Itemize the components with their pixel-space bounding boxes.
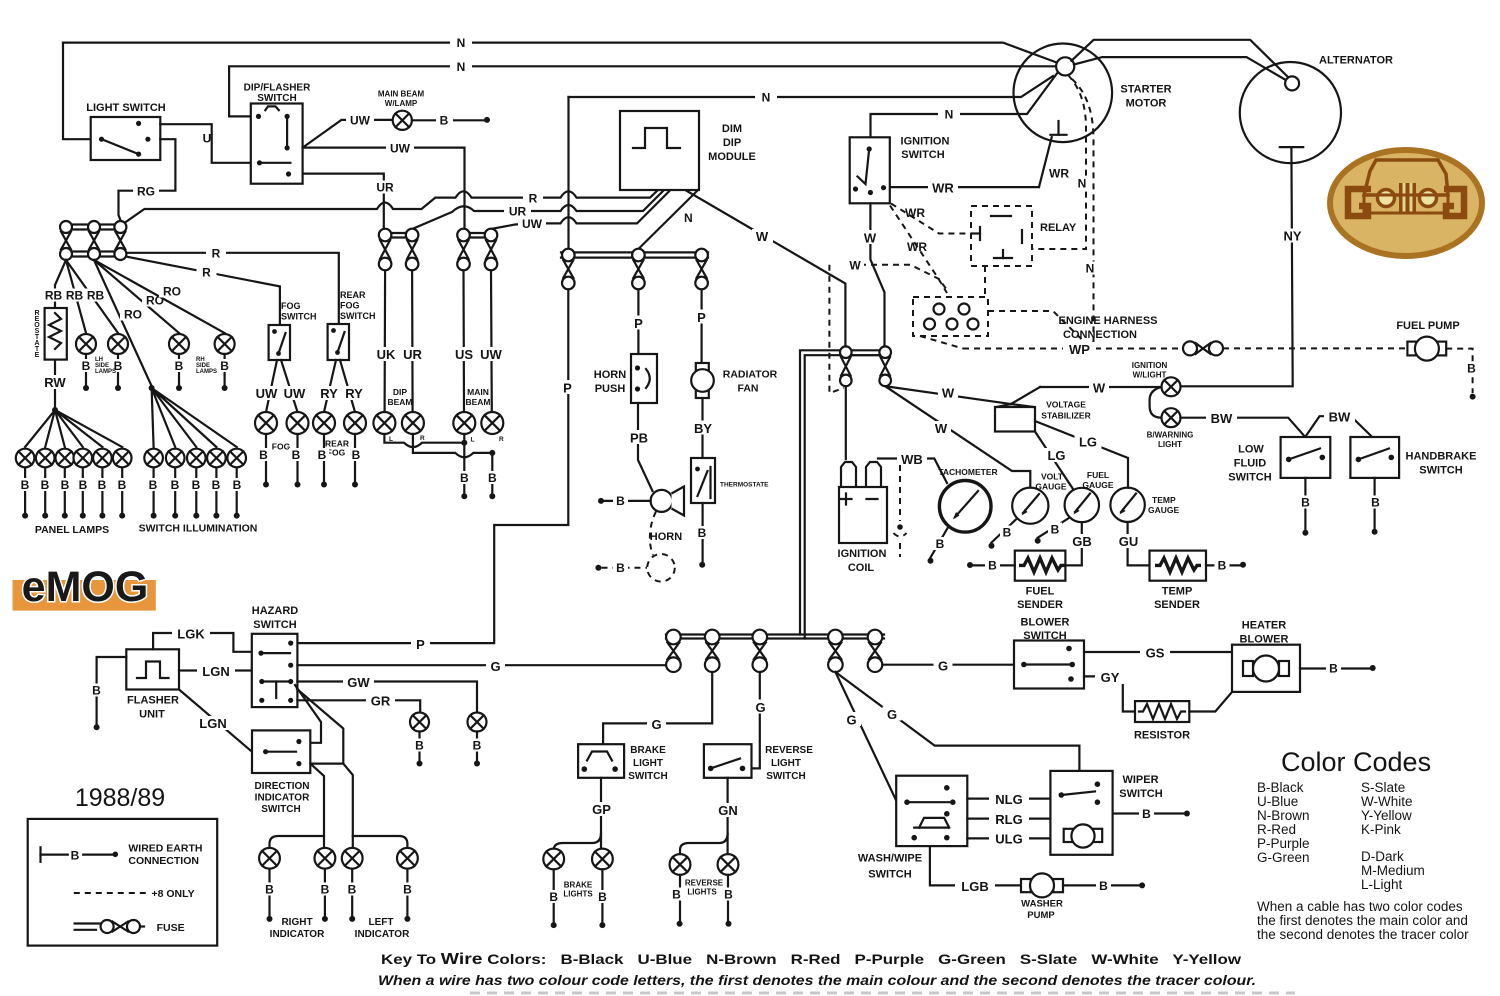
svg-text:LIGHTS: LIGHTS xyxy=(687,888,717,897)
svg-text:NY: NY xyxy=(1283,229,1301,244)
svg-text:the second denotes the tracer: the second denotes the tracer color xyxy=(1257,927,1469,942)
wire indicator earths xyxy=(270,869,408,916)
lamp main beam R xyxy=(481,412,503,434)
svg-text:UW: UW xyxy=(284,386,306,401)
svg-text:W: W xyxy=(1093,381,1106,396)
wire RB to LH side lamp 1 xyxy=(66,260,86,333)
svg-text:HORN: HORN xyxy=(650,531,682,543)
wire dashed WP line xyxy=(963,348,1183,350)
wire B earth of heater blower xyxy=(1300,667,1369,669)
resistor RESISTOR xyxy=(1135,701,1189,722)
bus tach fuse feed double line xyxy=(800,350,885,638)
svg-text:RY: RY xyxy=(345,386,363,401)
wire right pair branch xyxy=(270,836,325,848)
svg-text:B: B xyxy=(672,888,681,902)
wire GP to brake lights xyxy=(600,778,602,849)
wire dashed relay to harness xyxy=(984,266,986,297)
svg-text:UR: UR xyxy=(403,347,422,362)
wire dashed B earth xyxy=(602,567,648,569)
wire reverse light branch xyxy=(680,834,728,854)
svg-text:R: R xyxy=(499,436,504,443)
wire LG to fuel gauge xyxy=(1035,432,1073,490)
wire starter to alternator A xyxy=(1071,40,1290,79)
svg-text:DIRECTION: DIRECTION xyxy=(255,781,310,792)
wire brake light branch xyxy=(554,834,601,850)
wire left pair branch xyxy=(353,836,408,848)
svg-text:Color Codes: Color Codes xyxy=(1281,747,1431,777)
fusebox cluster double bus lines xyxy=(66,223,120,225)
svg-text:GR: GR xyxy=(371,694,391,709)
wire hazard to direction top pin xyxy=(295,685,321,743)
svg-text:W: W xyxy=(849,259,861,273)
svg-text:RESISTOR: RESISTOR xyxy=(1134,730,1190,742)
svg-text:REAR: REAR xyxy=(340,290,366,300)
svg-text:HANDBRAKE: HANDBRAKE xyxy=(1406,451,1477,463)
fuse gauge fuse 2 xyxy=(879,346,891,358)
svg-text:STABILIZER: STABILIZER xyxy=(1041,411,1090,421)
lamp right indicator front xyxy=(259,848,280,869)
svg-text:G: G xyxy=(846,713,856,728)
switch LOW FLUID SWITCH xyxy=(1281,437,1331,478)
svg-text:LG: LG xyxy=(1079,435,1097,450)
svg-text:L: L xyxy=(471,437,475,444)
fuse G fuse 1 xyxy=(666,630,681,645)
svg-text:G: G xyxy=(887,707,897,722)
wire reverse light earths xyxy=(680,875,728,920)
svg-text:W/LAMP: W/LAMP xyxy=(385,99,418,108)
wire dashed WP to fuel pump xyxy=(1223,347,1407,349)
svg-text:PUMP: PUMP xyxy=(1027,910,1055,921)
svg-text:LGN: LGN xyxy=(202,664,229,679)
svg-text:FLUID: FLUID xyxy=(1234,458,1266,470)
svg-text:1988/89: 1988/89 xyxy=(75,784,165,812)
svg-text:UW: UW xyxy=(256,386,278,401)
wire light switch feed drop xyxy=(63,43,91,140)
svg-text:eMOG: eMOG xyxy=(22,563,149,611)
svg-text:B: B xyxy=(71,848,80,862)
terminal alternator output xyxy=(1280,146,1303,148)
legend fuse symbol xyxy=(75,922,101,924)
svg-text:BW: BW xyxy=(1211,411,1233,426)
svg-text:THERMOSTATE: THERMOSTATE xyxy=(720,482,769,489)
svg-text:ULG: ULG xyxy=(995,832,1022,847)
svg-text:FOG: FOG xyxy=(327,448,346,458)
lamp repeater left xyxy=(468,713,487,732)
svg-text:LAMPS: LAMPS xyxy=(196,369,217,375)
wire N line 1 (top) xyxy=(63,43,1058,63)
bus G bus double line xyxy=(666,633,884,635)
svg-text:LAMPS: LAMPS xyxy=(95,369,116,375)
gauge FUEL GAUGE xyxy=(1065,488,1099,522)
wire B earth of washer pump xyxy=(1063,884,1139,886)
svg-text:N: N xyxy=(1086,262,1095,276)
wire PB to horn xyxy=(638,403,653,491)
svg-text:LIGHT: LIGHT xyxy=(633,758,663,769)
switch HANDBRAKE SWITCH xyxy=(1350,437,1399,478)
wire B earth of volt gauge xyxy=(992,519,1018,543)
svg-text:When a cable has two color cod: When a cable has two color codes xyxy=(1257,899,1463,914)
wire GS blower to heater xyxy=(1084,651,1232,653)
svg-text:W: W xyxy=(942,386,955,401)
svg-text:DIP/FLASHER: DIP/FLASHER xyxy=(244,83,311,94)
wire BW to low fluid switch xyxy=(1180,418,1305,437)
fuse F1 xyxy=(60,221,72,233)
svg-text:B: B xyxy=(321,883,330,897)
svg-text:N: N xyxy=(1078,177,1087,191)
wire WB coil to tachometer xyxy=(878,459,947,484)
svg-text:BRAKE: BRAKE xyxy=(630,745,666,756)
svg-text:B: B xyxy=(21,478,30,492)
svg-text:GAUGE: GAUGE xyxy=(1148,505,1180,515)
wire dashed coil points xyxy=(899,465,901,521)
svg-text:B: B xyxy=(1218,559,1227,573)
wire NY alternator to warning light xyxy=(1180,147,1292,386)
svg-text:UR: UR xyxy=(376,181,394,195)
svg-text:DIM: DIM xyxy=(722,123,742,135)
wire RO to switch illumination junction xyxy=(94,260,152,386)
wire UR drop to beam fuse 1 xyxy=(303,174,384,229)
svg-text:B: B xyxy=(988,559,997,573)
wire W stabilizer to ignition warning light xyxy=(1040,386,1161,388)
svg-text:SENDER: SENDER xyxy=(1017,599,1063,611)
wire UK drop xyxy=(384,270,387,412)
svg-text:B: B xyxy=(415,739,424,753)
wire B earth of handbrake xyxy=(1373,478,1375,528)
module DIM DIP MODULE xyxy=(620,111,699,190)
svg-text:FUEL: FUEL xyxy=(1026,586,1055,598)
wire B earth of tachometer xyxy=(931,527,949,558)
stabilizer VOLTAGE STABILIZER xyxy=(995,407,1035,432)
svg-text:RY: RY xyxy=(320,386,338,401)
svg-text:WR: WR xyxy=(907,240,927,254)
svg-text:B: B xyxy=(1003,526,1012,540)
svg-text:WR: WR xyxy=(1049,167,1069,181)
wire RO to RH side lamp 2 xyxy=(94,260,225,333)
wire N module to P-bus fuse 2 xyxy=(638,190,698,249)
svg-text:W: W xyxy=(756,229,769,244)
svg-text:R: R xyxy=(202,266,211,280)
wire RB to rheostat xyxy=(55,260,66,308)
wire LGB to washer pump xyxy=(930,846,1021,885)
node color code note xyxy=(1257,899,1469,942)
svg-text:U: U xyxy=(203,132,212,146)
wire W ignition down to tach fuse 2 xyxy=(870,203,884,346)
wire long P feed (N3 drop) xyxy=(567,97,569,249)
svg-text:MAIN BEAM: MAIN BEAM xyxy=(378,90,425,99)
svg-text:W: W xyxy=(864,231,877,246)
svg-text:B: B xyxy=(1371,496,1380,510)
svg-text:US: US xyxy=(455,347,473,362)
legend +8 only xyxy=(74,892,147,894)
wire B earth of horn xyxy=(604,500,651,502)
svg-text:UW: UW xyxy=(480,347,502,362)
svg-text:RO: RO xyxy=(124,308,142,322)
svg-text:LEFT: LEFT xyxy=(369,917,394,928)
horn HORN xyxy=(651,490,673,512)
svg-text:SWITCH: SWITCH xyxy=(766,771,805,782)
logo eMOG xyxy=(13,580,156,611)
svg-text:B: B xyxy=(352,448,361,462)
svg-text:SWITCH: SWITCH xyxy=(901,149,944,161)
svg-text:WP: WP xyxy=(1069,342,1090,357)
svg-text:COIL: COIL xyxy=(848,562,875,574)
lamp repeater right xyxy=(410,713,429,732)
svg-text:G: G xyxy=(755,700,765,715)
switch REVERSE LIGHT SWITCH xyxy=(704,744,752,778)
svg-text:B: B xyxy=(616,561,625,575)
svg-text:DIP: DIP xyxy=(393,387,408,397)
svg-text:BLOWER: BLOWER xyxy=(1021,617,1070,629)
wire resistor to heater blower xyxy=(1189,692,1232,712)
wire B earth of w/lamp xyxy=(412,119,487,121)
wire GY blower to resistor xyxy=(1084,676,1135,711)
wire UW drop xyxy=(490,270,493,412)
svg-text:R: R xyxy=(529,192,538,206)
svg-text:SENDER: SENDER xyxy=(1154,599,1200,611)
svg-text:WASHER: WASHER xyxy=(1021,899,1063,910)
svg-text:REVERSE: REVERSE xyxy=(765,745,813,756)
lamp reverse light L xyxy=(670,854,691,875)
svg-text:TEMP: TEMP xyxy=(1152,495,1176,505)
svg-text:TACHOMETER: TACHOMETER xyxy=(938,467,997,477)
svg-text:GS: GS xyxy=(1146,646,1165,661)
svg-text:IGNITION: IGNITION xyxy=(901,136,950,148)
connector ENGINE HARNESS CONNECTION xyxy=(913,297,988,336)
svg-text:SWITCH: SWITCH xyxy=(868,869,911,881)
svg-text:HORN: HORN xyxy=(594,369,626,381)
svg-text:P: P xyxy=(563,381,572,396)
wire G hazard to bus xyxy=(297,664,666,666)
wire starter to alternator B xyxy=(1074,57,1288,81)
svg-text:WASH/WIPE: WASH/WIPE xyxy=(858,853,922,865)
svg-text:E: E xyxy=(35,352,40,359)
wire B earth of temp sender xyxy=(1206,564,1240,566)
wire to right indicator pair xyxy=(310,764,324,848)
fuse G fuse 4 xyxy=(828,630,843,645)
svg-text:RB: RB xyxy=(45,289,63,303)
wire G to wash/wipe switch xyxy=(835,672,896,801)
wire rear fog earths xyxy=(324,434,355,481)
lamp panel lamps x6 xyxy=(16,449,132,468)
fuse G fuse 5 xyxy=(868,630,883,645)
lamp dip beam R xyxy=(402,412,424,434)
svg-text:B: B xyxy=(598,890,607,904)
svg-text:G: G xyxy=(490,659,500,674)
svg-text:B: B xyxy=(265,883,274,897)
wire RO to RH side lamp 1 xyxy=(94,260,179,333)
node RW junction xyxy=(52,407,58,413)
svg-text:INDICATOR: INDICATOR xyxy=(255,793,310,804)
svg-text:ALTERNATOR: ALTERNATOR xyxy=(1319,55,1393,67)
svg-text:BEAM: BEAM xyxy=(387,397,412,407)
node N label 4 xyxy=(938,108,960,121)
svg-text:RIGHT: RIGHT xyxy=(281,917,312,928)
wire P to radiator fan xyxy=(700,289,702,363)
wire RLG xyxy=(967,817,1050,819)
wire UW wavy from fuse4 to module xyxy=(491,190,670,229)
wire N line 2 xyxy=(229,66,1056,116)
svg-text:FUEL: FUEL xyxy=(1087,470,1109,480)
svg-text:PANEL LAMPS: PANEL LAMPS xyxy=(35,524,109,536)
svg-text:SWITCH: SWITCH xyxy=(1119,788,1162,800)
gauge TEMP GAUGE xyxy=(1110,488,1144,522)
wire UR wavy from fuse2 to module xyxy=(412,190,664,229)
svg-text:B-Black: B-Black xyxy=(1257,780,1304,795)
svg-text:RO: RO xyxy=(163,285,181,299)
svg-text:B: B xyxy=(1301,496,1310,510)
fuse F3 xyxy=(114,221,126,233)
svg-text:STARTER: STARTER xyxy=(1120,84,1171,96)
svg-text:N: N xyxy=(684,211,693,225)
svg-text:GN: GN xyxy=(718,803,738,818)
svg-text:RB: RB xyxy=(87,289,105,303)
svg-text:B: B xyxy=(61,478,70,492)
svg-text:LGN: LGN xyxy=(199,716,226,731)
svg-text:N: N xyxy=(762,91,771,105)
svg-text:UW: UW xyxy=(350,114,371,128)
wire dashed harness to WP xyxy=(920,336,963,349)
svg-text:MAIN: MAIN xyxy=(467,387,489,397)
lamp brake light R xyxy=(592,849,613,870)
wire L beams to earth xyxy=(384,434,464,447)
wire switch illumination earths xyxy=(154,468,237,512)
wire R beams to earth xyxy=(413,434,492,457)
wire N line 3 xyxy=(569,76,1054,97)
resistor FUEL SENDER xyxy=(1015,551,1066,581)
svg-text:CONNECTION: CONNECTION xyxy=(128,855,199,867)
battery IGNITION COIL xyxy=(841,462,856,487)
svg-text:FOG: FOG xyxy=(340,301,360,311)
svg-text:N: N xyxy=(457,60,466,74)
svg-text:B: B xyxy=(698,526,707,540)
wire dashed harness right link xyxy=(988,311,1091,349)
motor STARTER MOTOR xyxy=(1014,44,1113,143)
wire LGN flasher to direction indicator xyxy=(179,690,252,752)
wire dashed horn +8 xyxy=(650,512,656,556)
svg-text:B: B xyxy=(403,883,412,897)
wire RG xyxy=(119,139,176,220)
wire panel lamp fan xyxy=(25,410,122,447)
lamp main beam L xyxy=(453,412,475,434)
svg-text:S-Slate: S-Slate xyxy=(1361,780,1405,795)
svg-text:B: B xyxy=(149,478,158,492)
svg-text:BEAM: BEAM xyxy=(465,397,490,407)
fuse gauge fuse 1 xyxy=(840,346,852,358)
svg-text:N-Brown: N-Brown xyxy=(1257,808,1310,823)
wire W fuse2 to tachometer junction xyxy=(885,386,1030,487)
svg-text:B: B xyxy=(460,471,469,485)
lamp fog lamps xyxy=(255,412,277,434)
svg-text:GP: GP xyxy=(592,802,611,817)
lamp B/WARNING LIGHT xyxy=(1162,408,1181,427)
svg-text:FUEL PUMP: FUEL PUMP xyxy=(1396,320,1459,332)
svg-text:U-Blue: U-Blue xyxy=(1257,794,1298,809)
wire main R earth drop xyxy=(491,453,493,493)
wire UW horizontal to beam fuse 3 xyxy=(303,148,465,229)
svg-text:PB: PB xyxy=(630,431,648,446)
svg-text:+8 ONLY: +8 ONLY xyxy=(152,888,195,900)
switch BRAKE LIGHT SWITCH xyxy=(578,744,624,778)
svg-text:UNIT: UNIT xyxy=(139,709,165,721)
wire GB fuel gauge to sender xyxy=(1065,522,1081,565)
svg-text:SWITCH: SWITCH xyxy=(628,771,667,782)
svg-text:SWITCH: SWITCH xyxy=(1419,465,1462,477)
wire link to warning light xyxy=(1150,387,1162,418)
svg-text:B: B xyxy=(724,888,733,902)
fuse P fuse 2 xyxy=(632,249,645,262)
svg-text:HAZARD: HAZARD xyxy=(252,605,298,617)
fuse P fuse 3 xyxy=(695,249,708,262)
wire dashed N starter to WP line xyxy=(1072,79,1094,349)
wire GU temp gauge to sender xyxy=(1128,522,1150,565)
fuse beam fuse 1 xyxy=(385,232,412,234)
svg-text:B: B xyxy=(220,359,229,373)
wire GR to right-rear indicator lamp xyxy=(297,700,420,712)
svg-text:W: W xyxy=(935,421,948,436)
svg-text:RB: RB xyxy=(66,289,84,303)
fuse beam fuse 3 xyxy=(464,232,492,234)
svg-text:GB: GB xyxy=(1072,534,1092,549)
wire BY to thermostat xyxy=(701,398,703,458)
svg-text:LIGHTS: LIGHTS xyxy=(563,890,593,899)
svg-text:B: B xyxy=(212,478,221,492)
svg-text:B: B xyxy=(292,448,301,462)
wire B earth of low fluid xyxy=(1304,478,1306,529)
lamp left indicator front xyxy=(342,848,363,869)
wire rear fog feeds RY RY xyxy=(324,360,355,412)
node N label 3 xyxy=(755,91,777,104)
gauge VOLT GAUGE xyxy=(1012,488,1048,524)
node cut-off bottom text xyxy=(470,992,1295,995)
wire UW to main beam warning lamp xyxy=(303,120,393,148)
horn dashed horn (+8 only) xyxy=(647,554,675,582)
svg-text:SWITCH: SWITCH xyxy=(261,804,300,815)
wire dashed B earth of fuel pump xyxy=(1446,349,1472,393)
wire RW xyxy=(54,360,56,407)
svg-text:SWITCH: SWITCH xyxy=(340,311,376,321)
svg-text:RW: RW xyxy=(44,375,66,390)
svg-text:ENGINE HARNESS: ENGINE HARNESS xyxy=(1058,315,1157,327)
svg-text:IGNITION: IGNITION xyxy=(838,548,887,560)
wire US drop xyxy=(462,270,465,412)
svg-text:LIGHT: LIGHT xyxy=(1158,440,1182,449)
svg-text:TEMP: TEMP xyxy=(1162,586,1193,598)
svg-text:GW: GW xyxy=(347,675,370,690)
svg-text:B: B xyxy=(41,478,50,492)
svg-text:MODULE: MODULE xyxy=(708,151,756,163)
resistor TEMP SENDER xyxy=(1150,551,1207,581)
svg-text:RLG: RLG xyxy=(995,812,1022,827)
wire W fuse2 to voltage stabilizer xyxy=(885,386,1011,404)
wire G to blower switch xyxy=(882,664,1014,666)
lamp right indicator rear xyxy=(315,848,336,869)
svg-text:N: N xyxy=(457,36,466,50)
lamp switch illumination x5 xyxy=(144,449,246,468)
wire dashed N starter to relay xyxy=(1033,75,1086,249)
fuse WP fuse xyxy=(1183,341,1197,355)
svg-text:LOW: LOW xyxy=(1238,444,1264,456)
fuse beam fuse 2 xyxy=(406,229,419,242)
svg-text:FUSE: FUSE xyxy=(157,922,185,934)
svg-text:B: B xyxy=(171,478,180,492)
resistor RHEOSTAT xyxy=(45,308,67,360)
wire long P to hazard xyxy=(297,289,568,643)
svg-text:LG: LG xyxy=(1047,448,1065,463)
svg-text:B: B xyxy=(1142,807,1151,821)
wire main L earth drop xyxy=(463,434,465,493)
svg-text:WIRED EARTH: WIRED EARTH xyxy=(128,843,202,855)
fuse F2 xyxy=(88,221,100,233)
